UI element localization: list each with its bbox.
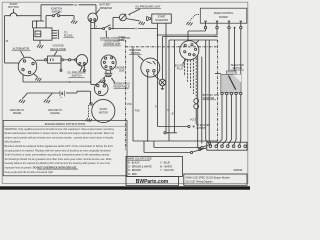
wire solenoid top stub (103, 78, 105, 85)
ground oil light (139, 21, 145, 25)
wire battery left (28, 92, 61, 94)
svg-text:IDLER CONTROL: IDLER CONTROL (214, 12, 234, 15)
svg-text:MOTOR: MOTOR (99, 111, 108, 114)
exciter plug label (175, 65, 186, 71)
wire riser x133 (132, 47, 134, 141)
plug connector symbol (104, 72, 112, 74)
svg-text:B - BLACK: B - BLACK (128, 162, 140, 165)
magneto MAG box (34, 28, 53, 40)
svg-text:W: W (75, 4, 78, 7)
wire breaker left drop (147, 72, 149, 141)
svg-text:winters and controls with jet: winters and controls with jet at least o… (5, 135, 114, 139)
svg-text:PLUG: PLUG (177, 68, 184, 71)
wire idler pin1 to exciter plug (205, 29, 207, 31)
start button PB1 label (8, 3, 18, 9)
wire regulator bottom stub (60, 63, 62, 69)
wire ammeter left drop long (90, 21, 92, 85)
svg-text:OIL PRESSURE LIGHT: OIL PRESSURE LIGHT (135, 5, 161, 8)
ignition kill switch S1 label (51, 8, 62, 14)
terminal (90, 103, 92, 105)
color code rows (128, 162, 174, 176)
terminal (75, 59, 77, 61)
svg-text:N - BROWN: N - BROWN (128, 169, 141, 172)
ground kill switch (71, 20, 77, 24)
panel boundary dash-dot top (126, 46, 218, 48)
terminal (188, 125, 190, 127)
svg-text:Keep ends and oils & tools con: Keep ends and oils & tools connected rig… (5, 170, 54, 174)
wire bus continue (111, 28, 135, 30)
svg-text:R - RED: R - RED (128, 173, 137, 176)
idler pins (205, 21, 207, 23)
node junction (90, 81, 92, 83)
wire switch to ground (60, 15, 74, 17)
svg-text:Set bearings should not be gre: Set bearings should not be greased more … (5, 157, 112, 161)
node filled (193, 126, 195, 128)
mag pins to plugs (52, 30, 57, 32)
wire ops stub (83, 65, 85, 70)
node junction (112, 28, 114, 30)
exciter pin drops (184, 59, 186, 76)
alternator ground stem (33, 74, 37, 77)
svg-text:SWITCH: SWITCH (52, 10, 62, 13)
second output row (164, 132, 166, 134)
receptacle leader arrow (111, 78, 115, 83)
border frame (2, 2, 248, 183)
svg-text:Brushes should be replaced bef: Brushes should be replaced before pigtai… (5, 144, 113, 148)
key switch leader (233, 71, 236, 74)
wire light to ground (126, 19, 139, 21)
battery charge ammeter M2 (194, 99, 199, 104)
wire B+ bus y28.5 (91, 28, 103, 30)
key switch S4 body (227, 71, 237, 75)
idler pin stubs (205, 23, 207, 26)
terminal (201, 146, 203, 148)
wire alternator bottom drop (22, 75, 24, 82)
exciter plug J2 (180, 41, 199, 60)
label engine side (115, 68, 124, 73)
start button leader (13, 9, 15, 13)
battery ammeter M1 (88, 13, 98, 23)
svg-text:of spring travel is reached. R: of spring travel is reached. Replace wit… (5, 148, 112, 152)
svg-text:B: B (172, 113, 174, 116)
wire diag to engine ground (47, 93, 52, 99)
wire mag feed (33, 20, 45, 22)
notes block box (3, 120, 127, 175)
terminal (190, 151, 192, 153)
ground engine plug (99, 79, 105, 83)
svg-text:SOLENOID: SOLENOID (155, 19, 168, 22)
wire solenoid N drop (165, 23, 167, 132)
strip terminals (209, 145, 212, 148)
diag to strip (203, 145, 210, 147)
svg-text:ENGINE: ENGINE (50, 112, 60, 115)
cutoff switch S3 (103, 28, 105, 30)
battery ammeter M1 label (100, 4, 113, 10)
wire drop x169 (168, 40, 170, 141)
svg-text:PANEL: PANEL (119, 36, 127, 39)
svg-text:W - WHITE: W - WHITE (160, 165, 172, 168)
svg-text:dirty locations.: dirty locations. (5, 140, 22, 144)
svg-text:bearing failures are caused by: bearing failures are caused by allowing … (5, 161, 111, 165)
ground solenoid dashed leader (186, 22, 192, 26)
terminal (228, 26, 230, 28)
start motor B1 (92, 99, 115, 122)
label TO PLUGS (64, 31, 73, 37)
wire light left (113, 16, 119, 18)
terminal (60, 69, 62, 71)
svg-text:P16: P16 (127, 103, 132, 106)
wire into start solenoid engine (91, 84, 96, 86)
terminal (61, 59, 63, 61)
wire idler pin5 to key switch (240, 29, 242, 75)
node junction (36, 20, 37, 21)
regulator leader (54, 51, 57, 55)
battery BT1 (59, 91, 61, 97)
wire kill switch drop to mag (45, 16, 47, 28)
ground start motor (86, 118, 92, 122)
wire idler pin3 to key switch (228, 29, 230, 75)
svg-text:Y - YELLOW: Y - YELLOW (160, 169, 174, 172)
breaker points label (129, 49, 141, 55)
cutoff switch leader (105, 31, 107, 38)
oil pressure switch label (67, 71, 86, 77)
start motor ground dashed (88, 105, 90, 118)
wire drop x174.5 (174, 40, 176, 133)
alternator leader (21, 51, 25, 57)
wire breaker right drop (153, 72, 155, 75)
svg-text:BUTTON: BUTTON (8, 6, 18, 9)
svg-text:ENGINE WIRING INSTRUCTIONS: ENGINE WIRING INSTRUCTIONS (45, 122, 86, 126)
svg-text:Y: Y (96, 25, 98, 28)
exciter output terminal row (158, 126, 188, 128)
terminal (199, 148, 201, 150)
bwparts logo box (126, 177, 179, 186)
breaker leader arrow (138, 55, 144, 60)
wire mag ground stem (39, 40, 41, 44)
svg-text:AMMETER: AMMETER (100, 7, 113, 10)
key switch wire drops (221, 95, 223, 140)
wire ammeter right drop (94, 21, 96, 29)
svg-text:S: S (155, 106, 157, 109)
ground engine (44, 99, 50, 103)
wire idler pin2 long (216, 29, 218, 35)
terminal (204, 26, 206, 28)
kill switch S1 (46, 15, 52, 17)
label ground to frame (10, 109, 25, 115)
wire idler pin4 to key switch (234, 29, 236, 75)
svg-text:VOLT: VOLT (190, 120, 196, 122)
key switch lever (229, 76, 236, 90)
label to exciter output (196, 125, 210, 130)
start solenoid K1 (152, 14, 172, 23)
voltage regulator VR1 label (50, 45, 66, 51)
wire mag pin drops (32, 21, 34, 28)
breaker points assembly (141, 58, 160, 77)
wire bus corner into solenoid drop (156, 28, 158, 31)
svg-text:BATTERY CHG: BATTERY CHG (203, 94, 219, 97)
svg-text:SIDE: SIDE (119, 70, 125, 72)
terminal strip TB1 (207, 142, 247, 150)
oil pressure light DS1 (119, 14, 126, 21)
notes paragraph (5, 127, 115, 174)
wire to condenser (154, 75, 159, 79)
label instrument panel (119, 36, 127, 42)
svg-text:P16: P16 (135, 110, 140, 113)
svg-text:612-6127 Wiring Diagram: 612-6127 Wiring Diagram (185, 181, 212, 184)
wire left vertical (4, 16, 6, 63)
notes underline (37, 168, 78, 170)
svg-text:BWParts.com: BWParts.com (136, 179, 169, 185)
idler control board U1 (200, 8, 247, 23)
wire button right (17, 15, 41, 17)
top wire W to ammeter (41, 4, 74, 6)
panel boundary dash-dot left (125, 40, 127, 150)
node filled (234, 27, 236, 29)
ground alternator (35, 77, 41, 81)
charge ammeter label (203, 94, 219, 100)
engine receptacle J1 label (104, 40, 121, 46)
wire button left (5, 15, 11, 17)
wire alternator to regulator (36, 59, 45, 61)
ammeter leader (96, 9, 100, 14)
svg-text:W: W (6, 40, 9, 43)
node junction (69, 81, 71, 83)
svg-text:Read maintenance instructions: Read maintenance instructions in power s… (5, 131, 115, 135)
wire ammeter drop (95, 5, 97, 14)
label ground to engine (48, 109, 63, 115)
svg-text:Seal it brushes or clean commu: Seal it brushes or clean commutators acc… (5, 153, 110, 157)
engine receptacle J1 (101, 55, 116, 70)
terminal (69, 59, 71, 61)
terminal (45, 59, 47, 61)
svg-text:G - BROWN & WHITE: G - BROWN & WHITE (128, 165, 152, 168)
wire light drop (112, 17, 114, 28)
svg-text:BOARD: BOARD (219, 16, 228, 19)
wire color code box (126, 156, 183, 176)
condenser ground (161, 86, 163, 88)
light leader arrow (129, 9, 141, 15)
key switch S4 label (231, 64, 244, 70)
bus step B (143, 141, 145, 153)
terminal (83, 69, 85, 71)
panel boundary dash-dot right (217, 40, 219, 150)
ops arrow leader (80, 67, 83, 72)
exciter label leader (183, 59, 186, 64)
bottom black bar (0, 186, 250, 189)
wire aux bus y40 (169, 39, 218, 41)
title block (184, 174, 247, 185)
svg-text:929034: 929034 (234, 168, 243, 172)
wire key switch left stub (215, 73, 221, 75)
receptacle pin drops (105, 70, 107, 73)
diag to strip (193, 148, 207, 152)
wire bottom bus y141 (133, 140, 218, 142)
terminal (240, 26, 242, 28)
solenoid left bracket (147, 17, 149, 21)
wire solenoid S drop (157, 23, 159, 126)
right bundle wires (197, 55, 199, 147)
wire battery to start motor (66, 92, 77, 94)
wire bottom bus to solenoid (23, 81, 91, 83)
wire diag to frame ground (22, 93, 27, 99)
oil pressure switch S2 (76, 55, 87, 66)
terminal (216, 26, 218, 28)
engine plug receptacle label (114, 83, 130, 89)
svg-text:FRAME: FRAME (13, 112, 22, 115)
svg-text:OUTPUT: OUTPUT (196, 128, 206, 130)
strip diag wires (217, 140, 222, 145)
node junction (157, 34, 159, 36)
wire riser to top bus (40, 5, 42, 21)
svg-text:ENGINE: ENGINE (115, 68, 124, 70)
bus step A (153, 141, 155, 148)
start button PB1 (10, 13, 17, 16)
key switch terminals (221, 92, 223, 94)
wire aux bus y36.5 (162, 36, 216, 38)
svg-text:N: N (136, 28, 138, 31)
ground frame (19, 99, 25, 103)
wire drop x162 (161, 37, 163, 80)
svg-text:MAG: MAG (36, 33, 42, 36)
plug ground stem (103, 77, 106, 80)
svg-text:V - BLUE: V - BLUE (160, 162, 170, 165)
wire regulator to switch (63, 59, 68, 61)
svg-text:WARNING: Only qualified perso: WARNING: Only qualified personnel should… (5, 127, 115, 131)
svg-text:ONAN CCK SPEC 16-200 Engine Mo: ONAN CCK SPEC 16-200 Engine Models (185, 176, 230, 179)
terminal (149, 18, 151, 20)
charge meter feed dashed (195, 58, 197, 98)
alternator G1 (18, 57, 37, 76)
wire to alternator (5, 62, 19, 64)
node junction (147, 140, 149, 142)
voltage regulator VR1 (48, 56, 61, 63)
ground magneto (37, 44, 43, 48)
engine start solenoid K2 (94, 82, 108, 96)
exciter plug arrow (195, 40, 199, 43)
svg-text:TO EXCITER: TO EXCITER (196, 125, 210, 127)
wire (71, 59, 75, 61)
condenser C1 (159, 79, 166, 86)
